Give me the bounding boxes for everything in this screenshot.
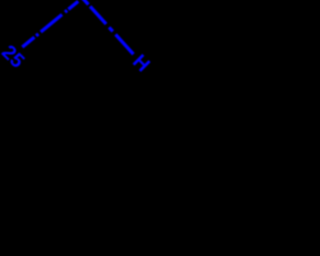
bond (dash-dot) from apex atom to atom 25 — [22, 1, 78, 47]
bond (dash-dot) from apex atom to H — [81, 0, 134, 54]
wire: left bond dash 2 (long) — [41, 15, 62, 32]
wire: right bond dash 2 (long) — [90, 6, 106, 24]
wire: left bond dot 2 — [36, 34, 38, 36]
wire: left bond dash 1 (near apex) — [68, 1, 78, 9]
wire: right bond dot 1 — [109, 27, 113, 31]
wire: left bond dash 3 (near label 25) — [22, 37, 34, 47]
wire: right bond dash 1 (near apex) — [81, 0, 89, 5]
wire: left bond dot 1 — [65, 10, 67, 12]
wire: right bond dash 3 (long) — [116, 35, 134, 55]
